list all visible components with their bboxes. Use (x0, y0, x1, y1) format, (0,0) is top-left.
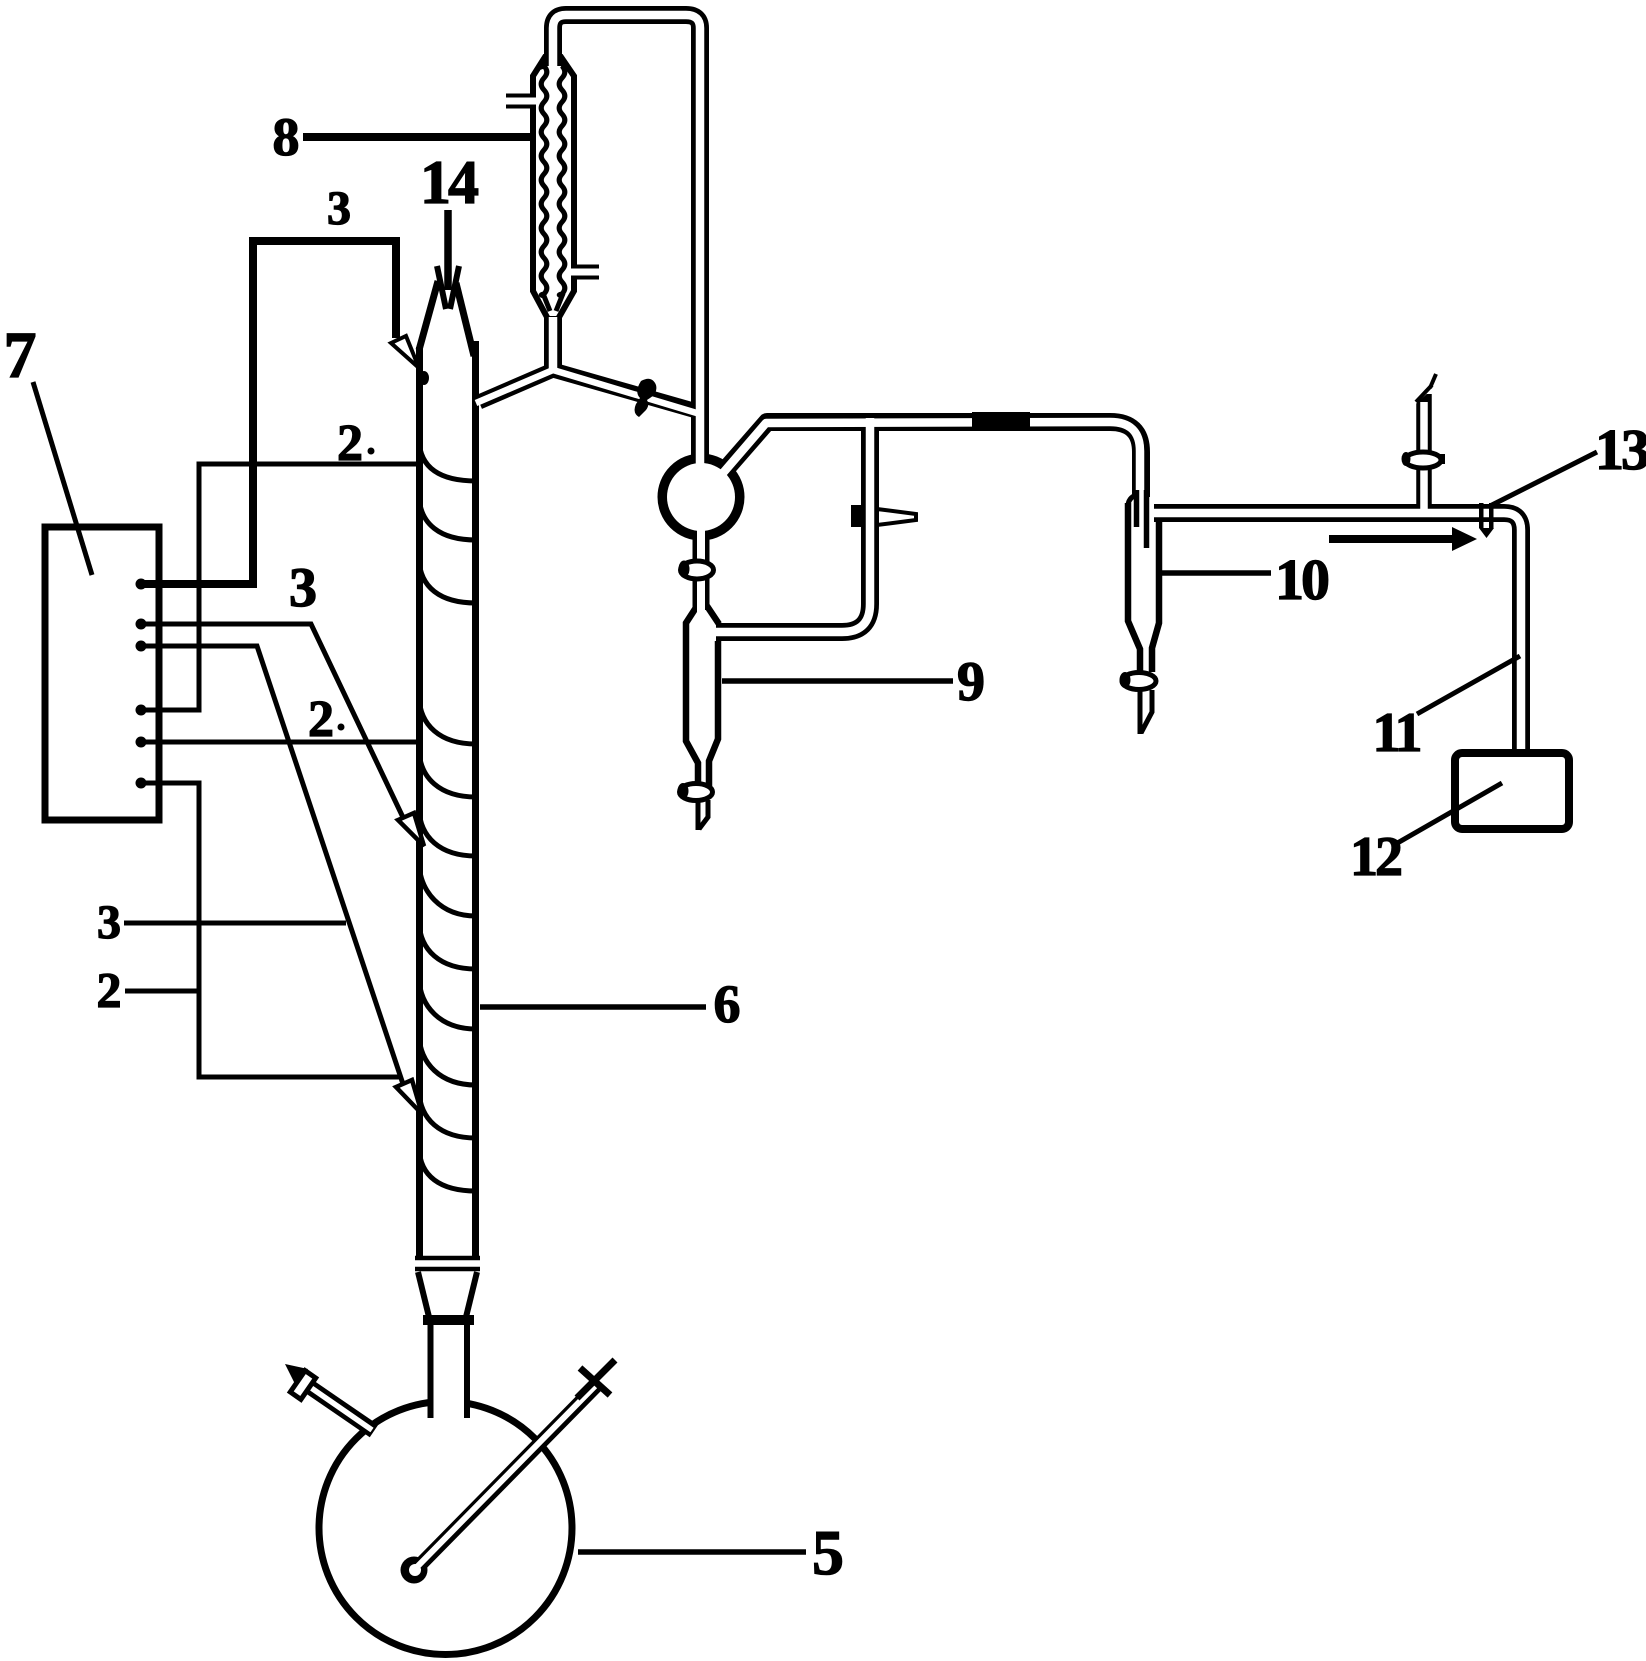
spiral packing arc 11 of column 6 (419, 1091, 476, 1138)
stopcock on needle tube: body (1405, 452, 1441, 468)
column 6 left wall (416, 347, 423, 1256)
svg-text:3: 3 (289, 557, 317, 619)
column 6 funnel mouth left line (419, 281, 438, 350)
spiral packing arc 7 of column 6 (419, 863, 476, 916)
Y right branch white core (553, 370, 700, 414)
bulb interior white (667, 463, 735, 531)
svg-text:6: 6 (714, 974, 741, 1034)
label 12 leader (1394, 783, 1502, 845)
label 2 middle dot (338, 724, 345, 731)
spiral packing arc 4 of column 6 (419, 697, 476, 744)
spiral packing arc 10 of column 6 (419, 1035, 476, 1085)
spiral packing arc 9 of column 6 (419, 978, 476, 1029)
svg-text:3: 3 (97, 896, 121, 949)
spiral packing arc 5 of column 6 (419, 750, 476, 797)
wire 3 lower sensor lead (141, 646, 405, 1090)
stopcock on needle tube: right nub (1440, 454, 1445, 464)
needle tube top spike (1430, 374, 1436, 388)
wire 2 lower heating zone lead (141, 783, 402, 1077)
spiral packing arc 1 of column 6 (419, 440, 476, 481)
junction 13 pointer blob (1479, 528, 1494, 538)
needle tube top edge (1416, 385, 1432, 402)
flask neck opening white gap (434, 1392, 465, 1422)
spiral packing arc 3 of column 6 (419, 559, 476, 603)
flask side arm tube black (301, 1381, 374, 1431)
wire 2 middle heating zone lead (141, 740, 416, 745)
stopcock on T-branch: blade handle (877, 509, 916, 525)
stopcock below bulb: left nub (679, 561, 690, 578)
svg-text:12: 12 (1350, 826, 1401, 888)
column bottom cone left (418, 1272, 429, 1317)
inner tube right wall inside vessel 10 (1144, 490, 1150, 548)
label 9 leader (722, 678, 953, 684)
stopcock at vessel 9 tip: left nub (678, 783, 689, 799)
terminal dot 4 (136, 705, 147, 716)
stopcock at vessel 9 tip: body (680, 784, 713, 801)
svg-text:8: 8 (273, 107, 300, 167)
flask side arm stopper flag (285, 1364, 308, 1384)
thermometer tube cap stroke (580, 1368, 610, 1395)
spiral packing arc 12 of column 6 (419, 1148, 476, 1191)
vacuum pump box 12 (1455, 753, 1569, 829)
column 6 right wall (472, 341, 479, 1256)
svg-text:3: 3 (327, 182, 351, 235)
spiral packing arc 6 of column 6 (419, 809, 476, 856)
label 10 leader (1161, 570, 1271, 576)
ground joint black band on main pipe (972, 412, 1030, 431)
needle tube top diagonal cut (1413, 381, 1435, 401)
label 8 leader (303, 133, 533, 141)
flow direction arrow head (1452, 527, 1477, 551)
bulb outlet arm and main pipe to vessel 10, black (719, 422, 1141, 497)
T-branch and return pipe to vessel 9, black (716, 424, 870, 632)
needle tube white core (1420, 402, 1428, 513)
column inner tube shoulder remnant (419, 371, 429, 385)
terminal dot 5 (136, 737, 147, 748)
stopcock on Y right branch: key blob (635, 379, 657, 417)
svg-text:7: 7 (4, 319, 37, 392)
Y junction left branch to column, black (479, 370, 553, 402)
vessel 9 bottom tip (696, 800, 701, 830)
vessel 10 tip right wall (1141, 690, 1152, 733)
vessel 9 right outline (707, 606, 719, 624)
label 2 lower leader (125, 989, 197, 994)
svg-text:9: 9 (957, 651, 985, 713)
flask neck right wall (464, 1325, 470, 1418)
vessel 10 bottom tip (1138, 690, 1143, 734)
terminal dot 3 (136, 641, 147, 652)
svg-text:2: 2 (97, 962, 122, 1018)
second pipe from vessel 10 to pump line, black (1154, 513, 1521, 757)
condenser 8 lower-right water arm white core (569, 269, 602, 276)
condenser 8 lower-right water arm black (573, 265, 599, 280)
wire 2 upper heating zone lead (141, 464, 418, 710)
thermometer tube bulb tip white core (409, 1564, 421, 1576)
feed arrow 14 head left stroke (437, 266, 446, 309)
thermometer tube bulb tip black (401, 1557, 428, 1584)
vessel 10 mouth lip (1128, 494, 1140, 505)
svg-text:14: 14 (420, 149, 478, 217)
flask neck left wall (428, 1325, 434, 1418)
flask side arm tube white core (307, 1385, 372, 1430)
svg-text:11: 11 (1373, 702, 1421, 764)
label 7 leader (33, 382, 92, 575)
stopcock below bulb: body (681, 561, 714, 579)
column lower joint line lower (415, 1267, 480, 1272)
feed arrow 14 shaft (444, 210, 452, 290)
bulb outlet arm and main pipe white core (723, 422, 1140, 503)
stopcock at vessel 10 tip: left nub (1120, 672, 1131, 688)
label 5 leader (578, 1549, 806, 1555)
label 2 upper dot (368, 448, 375, 455)
wire 3 lower arrowhead (396, 1080, 422, 1114)
vessel 9 tip right wall (699, 800, 708, 829)
wire 3 upper heater lead (141, 241, 396, 584)
vessel 9 right wall below return port (709, 641, 718, 788)
wire 3 upper arrowhead (391, 336, 419, 368)
label 6 leader (480, 1004, 706, 1010)
svg-text:2: 2 (308, 691, 334, 748)
label 13 leader (1490, 452, 1597, 506)
flask 5 body (319, 1402, 572, 1655)
flow direction arrow shaft (1329, 535, 1456, 543)
column/flask joint bar (423, 1315, 474, 1325)
svg-text:2: 2 (337, 415, 363, 472)
condenser 8 inner coil left wavy wall (541, 57, 550, 311)
vessel 10 left outline (1128, 503, 1140, 672)
feed arrow 14 head right stroke (450, 266, 459, 309)
svg-text:10: 10 (1275, 547, 1328, 612)
needle vent tube, black (1416, 394, 1432, 511)
condenser 8 inner coil right wavy wall (556, 57, 565, 311)
svg-text:13: 13 (1595, 417, 1646, 482)
condenser 8 upper-left water arm white core (503, 98, 537, 105)
reflux divider bulb ring (663, 459, 740, 536)
stopcock on needle tube: left nub (1402, 452, 1411, 466)
bulb to vessel 9 tube, black (693, 533, 710, 610)
terminal dot 1 (136, 579, 147, 590)
svg-text:5: 5 (812, 1517, 844, 1588)
column 6 funnel mouth right line (456, 283, 474, 356)
bulb to vessel 9 tube white core (697, 527, 705, 612)
thermometer tube cap slash (577, 1360, 615, 1398)
label 3 lower leader (124, 921, 346, 926)
spiral packing arc 8 of column 6 (419, 922, 476, 969)
vessel 10 right outline (1152, 513, 1159, 672)
terminal dot 6 (136, 778, 147, 789)
junction 13 bar right (1489, 503, 1494, 528)
column lower joint line upper (415, 1256, 480, 1261)
condenser 8 upper-left water arm black (506, 94, 533, 109)
terminal dot 2 (136, 619, 147, 630)
stopcock at vessel 10 tip: body (1122, 673, 1156, 690)
column bottom cone right (466, 1272, 477, 1317)
spiral packing arc 2 of column 6 (419, 496, 476, 540)
stopcock on T-branch: left plug (851, 505, 865, 527)
wire 3 middle arrowhead (398, 813, 424, 846)
thermometer tube in flask black (416, 1384, 598, 1569)
condenser bottom tube to Y junction, black (544, 316, 562, 370)
vapor loop tube from condenser top to bulb, black (553, 15, 700, 462)
vapor loop tube white core (553, 15, 700, 470)
condenser 8 jacket (533, 57, 574, 319)
inner tube left wall inside vessel 10 (1134, 490, 1140, 527)
controller box 7 (45, 527, 159, 820)
second pipe white core (1153, 513, 1521, 753)
Y junction right branch to loop, black (553, 370, 700, 412)
label 11 leader (1417, 656, 1520, 714)
thermometer tube white core (413, 1386, 595, 1571)
condenser bottom tube white core (549, 317, 558, 371)
vessel 9 left outline (686, 606, 698, 788)
junction 13 bar left (1479, 503, 1484, 528)
T-branch and return white core (712, 418, 870, 632)
flask side arm stopper cap (290, 1371, 315, 1400)
Y left branch white core (476, 370, 553, 403)
wire 3 middle sensor lead (141, 624, 409, 830)
